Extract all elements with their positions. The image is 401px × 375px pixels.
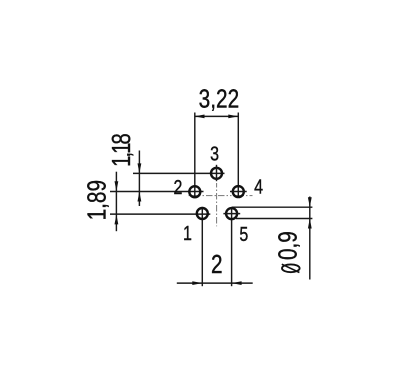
svg-text:5: 5 <box>239 223 248 245</box>
wire: pin5 bottom tangent line to dia dim <box>236 218 312 220</box>
svg-text:1: 1 <box>183 222 192 244</box>
dimension 3,22 line <box>195 115 239 117</box>
wire: 3,22 right extension down to pin 4 <box>237 113 239 199</box>
svg-text:3: 3 <box>210 143 219 165</box>
pin 5 crosshair horizontal <box>223 213 240 215</box>
svg-text:3,22: 3,22 <box>199 84 239 113</box>
wire: pin5 extension down to 2-dim <box>231 207 233 286</box>
svg-text:0,9: 0,9 <box>273 231 302 260</box>
wire: pin1 extension down to 2-dim <box>201 207 203 286</box>
wire: extension line pin2 level (1,18 bottom / 1,89 top) <box>110 191 204 193</box>
arrow 2 right (points left) <box>232 281 242 285</box>
pin 4 circle <box>233 186 244 197</box>
svg-text:2: 2 <box>211 250 223 279</box>
arrow 1,89 upper (points down) <box>115 181 119 191</box>
arrow dia lower (points up) <box>308 219 312 229</box>
wire: pin5 top tangent line to dia dim <box>232 206 313 208</box>
svg-text:1,18: 1,18 <box>106 134 135 167</box>
pin 2 circle <box>189 186 200 197</box>
svg-text:4: 4 <box>254 176 263 198</box>
pin 1 circle <box>197 208 208 219</box>
arrow 1,18 lower (points up) <box>138 192 142 202</box>
wire: extension line pin3 level (1,18 top) <box>133 172 225 174</box>
centerline vertical (part axis) <box>216 183 218 226</box>
pin 3 circle <box>211 168 222 179</box>
pin 4 crosshair horizontal <box>230 191 247 193</box>
svg-text:1,89: 1,89 <box>82 180 111 220</box>
wire: 3,22 left extension down to pin 2 <box>194 113 196 199</box>
label dia symbol ellipse <box>282 264 300 272</box>
arrow 3,22 right <box>228 115 238 119</box>
dimension 1,18 line <box>138 151 140 207</box>
wire: extension line pin1 level (1,89 bottom) <box>110 213 210 215</box>
arrow dia upper (points down) <box>308 197 312 207</box>
dimension dia 0,9 line <box>309 197 311 280</box>
dimension 1,89 line <box>115 172 117 232</box>
arrow 1,89 lower (points up) <box>115 214 119 224</box>
pin 3 crosshair vertical <box>216 165 218 181</box>
label dia symbol slash <box>282 264 300 272</box>
arrow 3,22 left <box>195 115 205 119</box>
svg-text:2: 2 <box>173 176 182 198</box>
arrow 2 left (points right) <box>192 281 202 285</box>
arrow 1,18 upper (points down) <box>138 163 142 173</box>
pin 5 circle <box>226 208 237 219</box>
centerline horizontal (part axis) <box>189 195 253 197</box>
dimension 2 line (bottom) <box>177 282 253 284</box>
